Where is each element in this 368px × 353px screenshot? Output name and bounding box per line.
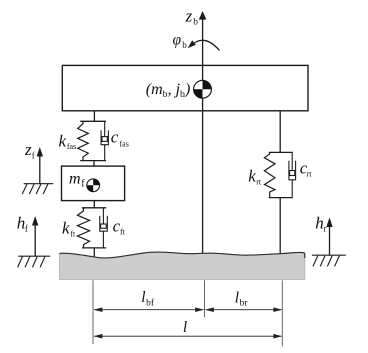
reference arrow h_f — [32, 216, 38, 256]
ground h_f — [18, 256, 51, 267]
ground h_r — [312, 255, 346, 266]
svg-text:br: br — [240, 299, 249, 309]
dimension extension line rear wheel — [281, 280, 283, 346]
svg-text:f: f — [81, 179, 85, 190]
svg-text:f: f — [32, 151, 35, 161]
axis z_b centerline — [199, 11, 207, 254]
svg-text:z: z — [185, 6, 193, 25]
center of mass symbol m_f — [87, 179, 100, 192]
spring k_fas — [78, 121, 89, 160]
wire m_f to tyre unit — [93, 201, 95, 208]
svg-text:rt: rt — [256, 178, 262, 187]
svg-text:c: c — [111, 127, 119, 146]
wire body to rear suspension — [279, 111, 281, 153]
svg-text:z: z — [24, 140, 32, 159]
wire body to front suspension — [93, 111, 95, 122]
label c_rt — [300, 159, 312, 179]
svg-text:f: f — [25, 224, 28, 234]
rear unit top bar — [269, 151, 293, 153]
label l_br — [235, 289, 249, 308]
svg-text:k: k — [248, 166, 256, 185]
wire to m_f box — [93, 161, 95, 167]
svg-text:φ: φ — [173, 31, 182, 48]
label l_bf — [141, 289, 155, 308]
svg-text:l: l — [183, 319, 187, 336]
rear unit bottom bar — [269, 197, 293, 199]
label k_rt — [248, 166, 262, 186]
reference arrow h_r — [326, 218, 332, 256]
svg-text:r: r — [324, 224, 327, 234]
spring k_rt — [264, 152, 275, 197]
damper c_rt — [289, 152, 296, 197]
ground z_f — [22, 184, 53, 194]
svg-text:k: k — [62, 218, 70, 237]
svg-text:h: h — [315, 213, 324, 232]
front suspension top bar — [80, 120, 106, 122]
dimension line l — [94, 334, 283, 339]
wire rear to road — [279, 198, 281, 254]
damper c_ft — [100, 208, 108, 248]
label h_r — [315, 213, 326, 233]
front suspension bottom bar — [80, 160, 106, 162]
svg-text:ft: ft — [120, 228, 126, 237]
label z_b — [185, 6, 199, 27]
damper c_fas — [101, 121, 108, 160]
label (m_b, j_b) — [146, 81, 191, 100]
svg-text:b: b — [182, 40, 187, 50]
label phi_b — [173, 31, 188, 49]
label k_ft — [62, 218, 76, 238]
svg-text:k: k — [59, 132, 67, 151]
label c_fas — [111, 127, 129, 148]
svg-text:l: l — [235, 289, 239, 306]
label k_fas — [59, 132, 77, 152]
svg-text:fas: fas — [67, 142, 76, 151]
svg-text:bf: bf — [146, 297, 155, 308]
rotation arrow phi_b — [188, 40, 220, 50]
spring k_ft — [77, 208, 89, 248]
label l — [183, 319, 187, 336]
reference arrow z_f — [37, 147, 43, 184]
tyre unit bottom bar — [82, 247, 106, 249]
dimension line l_br — [205, 307, 282, 312]
road surface — [59, 252, 304, 280]
dimension extension line centre — [204, 280, 206, 317]
dimension extension line front wheel — [92, 280, 94, 344]
svg-text:b: b — [193, 18, 198, 28]
label z_f — [24, 140, 35, 160]
body mass box (m_b, j_b) — [62, 65, 308, 110]
svg-text:(mb, jb): (mb, jb) — [146, 81, 191, 100]
center of mass symbol body — [194, 80, 212, 98]
svg-text:l: l — [141, 289, 145, 306]
wire to road — [93, 248, 95, 258]
label c_ft — [113, 216, 126, 236]
svg-text:m: m — [69, 170, 81, 187]
svg-text:rt: rt — [307, 170, 313, 179]
svg-text:fas: fas — [120, 139, 129, 148]
front axle mass box m_f — [62, 166, 125, 201]
tyre unit top bar — [82, 207, 106, 209]
label m_f — [69, 170, 85, 189]
label h_f — [17, 213, 28, 233]
dimension line l_bf — [94, 307, 204, 312]
svg-text:ft: ft — [70, 230, 76, 239]
